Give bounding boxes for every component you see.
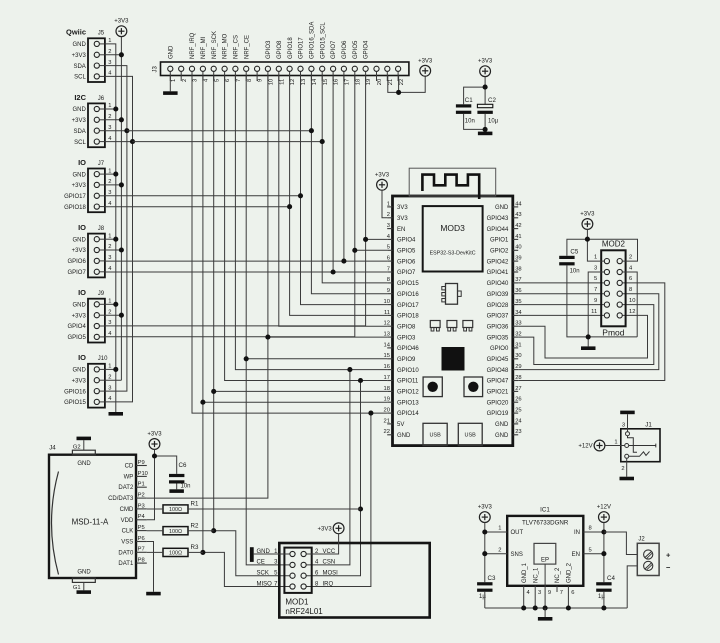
svg-text:3: 3 bbox=[193, 79, 199, 82]
svg-text:12: 12 bbox=[290, 79, 296, 85]
power +3V3 left bus bbox=[114, 19, 129, 37]
svg-text:GPIO7: GPIO7 bbox=[67, 270, 86, 276]
svg-text:2: 2 bbox=[182, 79, 188, 82]
svg-text:3V3: 3V3 bbox=[397, 205, 408, 211]
svg-text:GND: GND bbox=[397, 433, 411, 439]
svg-text:J9: J9 bbox=[98, 291, 105, 297]
wire +12V IN EN bbox=[583, 523, 604, 583]
wire IC1 bottom pins bbox=[524, 564, 569, 608]
svg-text:nRF24L01: nRF24L01 bbox=[285, 607, 323, 616]
svg-text:SDA: SDA bbox=[73, 129, 85, 135]
ground G2 bbox=[77, 437, 92, 441]
svg-text:VDD: VDD bbox=[121, 518, 134, 524]
svg-text:2: 2 bbox=[629, 255, 632, 261]
connector J5 Qwiic bbox=[66, 28, 112, 82]
svg-text:2: 2 bbox=[108, 309, 111, 315]
wire net SDA bbox=[127, 130, 312, 132]
power +3V3 C1C2 bbox=[478, 59, 493, 77]
svg-text:GPIO15_SCL: GPIO15_SCL bbox=[320, 22, 326, 59]
wire net GPIO4 bbox=[105, 76, 366, 326]
svg-text:GPIO6: GPIO6 bbox=[397, 259, 416, 265]
ground VSS bbox=[146, 592, 161, 596]
svg-text:J6: J6 bbox=[98, 96, 105, 102]
svg-text:P1: P1 bbox=[138, 482, 145, 488]
svg-text:1: 1 bbox=[108, 299, 111, 305]
resistor R3 bbox=[147, 544, 203, 557]
svg-text:GPIO37: GPIO37 bbox=[487, 314, 509, 320]
svg-text:SCL: SCL bbox=[74, 75, 86, 81]
ground C1C2 bbox=[478, 132, 493, 136]
svg-text:18: 18 bbox=[355, 79, 361, 85]
svg-text:GPIO9: GPIO9 bbox=[397, 357, 416, 363]
connector J3 22-pin header bbox=[152, 22, 409, 86]
svg-text:J10: J10 bbox=[98, 356, 108, 362]
svg-text:2: 2 bbox=[621, 466, 624, 472]
svg-text:9: 9 bbox=[594, 298, 597, 304]
wire +3V3 bus left bbox=[105, 37, 122, 381]
wire GPIO28 to Pmod9 bbox=[518, 304, 604, 306]
svg-text:GPIO18: GPIO18 bbox=[397, 314, 419, 320]
junction OUT bbox=[482, 529, 487, 534]
ground J3 pin1 bbox=[163, 76, 178, 95]
svg-text:G2: G2 bbox=[73, 444, 81, 450]
svg-text:GPIO35: GPIO35 bbox=[487, 335, 509, 341]
svg-text:GPIO6: GPIO6 bbox=[342, 40, 348, 59]
svg-text:SNS: SNS bbox=[511, 552, 523, 558]
svg-text:3: 3 bbox=[108, 190, 111, 196]
svg-text:+3V3: +3V3 bbox=[72, 183, 87, 189]
svg-text:USB: USB bbox=[465, 433, 477, 439]
wire net SDA to GPIO16 bbox=[311, 76, 387, 294]
junction NRF_MO bbox=[358, 378, 363, 383]
svg-text:−: − bbox=[666, 563, 671, 572]
svg-text:13: 13 bbox=[301, 79, 307, 85]
svg-text:P6: P6 bbox=[138, 536, 145, 542]
svg-text:44: 44 bbox=[515, 201, 522, 207]
svg-text:+3V3: +3V3 bbox=[147, 432, 162, 438]
antenna meander MOD3 bbox=[409, 168, 496, 199]
svg-text:9: 9 bbox=[387, 288, 390, 294]
svg-text:GND_2: GND_2 bbox=[567, 562, 573, 583]
svg-text:10n: 10n bbox=[570, 269, 580, 275]
svg-text:GND: GND bbox=[72, 237, 86, 243]
svg-text:MOD2: MOD2 bbox=[602, 240, 626, 249]
junction SNS bbox=[482, 551, 487, 556]
ground J1 bottom bbox=[620, 477, 635, 481]
junction GPIO3 bbox=[265, 335, 270, 340]
svg-text:19: 19 bbox=[366, 79, 372, 85]
svg-text:NRF_CE: NRF_CE bbox=[244, 35, 250, 59]
wire GPIO40 to Pmod5 bbox=[518, 282, 604, 284]
svg-text:R3: R3 bbox=[191, 544, 199, 551]
svg-text:P2: P2 bbox=[138, 492, 145, 498]
svg-text:GPIO4: GPIO4 bbox=[67, 324, 86, 330]
svg-text:GPIO41: GPIO41 bbox=[487, 270, 509, 276]
svg-text:1: 1 bbox=[498, 526, 501, 532]
svg-text:NRF_SCK: NRF_SCK bbox=[212, 31, 218, 59]
wire net CSN drop bbox=[306, 370, 350, 565]
svg-text:+: + bbox=[666, 551, 671, 560]
svg-text:P5: P5 bbox=[138, 525, 145, 531]
junction GND MOD2 bbox=[586, 334, 591, 339]
svg-text:14: 14 bbox=[384, 342, 391, 348]
svg-text:C4: C4 bbox=[607, 575, 615, 582]
wire net GPIO5 bbox=[105, 76, 355, 337]
wire net NRF_MI row19 bbox=[203, 401, 387, 403]
svg-text:MOSI: MOSI bbox=[323, 571, 339, 577]
svg-text:GPIO40: GPIO40 bbox=[487, 281, 509, 287]
svg-text:NRF_MI: NRF_MI bbox=[201, 36, 207, 59]
wire net GPIO18 bbox=[105, 206, 290, 208]
svg-text:GPIO47: GPIO47 bbox=[487, 379, 509, 385]
ground C6 bbox=[169, 489, 184, 493]
wire net GPIO8 bbox=[279, 76, 387, 326]
svg-text:GND: GND bbox=[168, 45, 174, 59]
svg-text:+3V3: +3V3 bbox=[375, 172, 390, 178]
svg-text:3: 3 bbox=[108, 385, 111, 391]
svg-text:GPIO16: GPIO16 bbox=[64, 389, 86, 395]
wire GPIO36 to Pmod12 bbox=[518, 315, 647, 358]
svg-text:GPIO7: GPIO7 bbox=[331, 40, 337, 59]
svg-text:3: 3 bbox=[108, 125, 111, 131]
junction under J3 pin22 bbox=[396, 90, 401, 95]
wire net GPIO3 row13 bbox=[268, 336, 387, 338]
svg-text:GND: GND bbox=[72, 303, 86, 309]
svg-text:30: 30 bbox=[515, 353, 521, 359]
svg-text:22: 22 bbox=[384, 429, 390, 435]
svg-text:GND: GND bbox=[72, 368, 86, 374]
wire net NRF_IRQ bbox=[192, 76, 387, 413]
svg-text:21: 21 bbox=[388, 79, 394, 85]
svg-text:1: 1 bbox=[387, 201, 390, 207]
svg-text:GPIO16: GPIO16 bbox=[397, 292, 419, 298]
junction IN bbox=[601, 529, 606, 534]
svg-text:GPIO4: GPIO4 bbox=[397, 238, 416, 244]
wire net GPIO7 vert bbox=[332, 76, 334, 272]
USB connector 2 MOD3 bbox=[458, 423, 482, 445]
svg-text:+3V3: +3V3 bbox=[114, 19, 129, 25]
junction NRF_SCK R2 bbox=[211, 528, 216, 533]
svg-text:TLV76733DGNR: TLV76733DGNR bbox=[522, 519, 569, 526]
junction EN bbox=[601, 551, 606, 556]
junction C1C2 top bbox=[483, 85, 488, 90]
svg-text:ESP32-S3-DevKitC: ESP32-S3-DevKitC bbox=[430, 251, 476, 257]
svg-text:P9: P9 bbox=[138, 460, 145, 466]
button 2 MOD3 bbox=[464, 377, 483, 397]
power +12V J1 bbox=[578, 440, 604, 451]
svg-text:MOD3: MOD3 bbox=[440, 223, 465, 233]
junction rail 3 bbox=[533, 605, 538, 610]
junction NRF_CS bbox=[347, 367, 352, 372]
wire net GPIO3 bbox=[147, 76, 268, 498]
power +3V3 IC1 bbox=[478, 505, 493, 523]
svg-text:USB: USB bbox=[429, 433, 441, 439]
svg-text:3V3: 3V3 bbox=[397, 216, 408, 222]
junction VDD bbox=[152, 453, 157, 458]
svg-text:GPIO18: GPIO18 bbox=[64, 205, 86, 211]
svg-text:GPIO13: GPIO13 bbox=[397, 400, 419, 406]
wire net NRF_CS bbox=[235, 76, 387, 370]
connector J4 microSD MSD-11-A bbox=[49, 445, 148, 583]
svg-text:C1: C1 bbox=[465, 97, 473, 104]
svg-text:6: 6 bbox=[387, 256, 390, 262]
svg-text:GPIO8: GPIO8 bbox=[397, 324, 416, 330]
svg-text:20: 20 bbox=[384, 407, 390, 413]
svg-text:21: 21 bbox=[384, 418, 390, 424]
wire net NRF_MO bbox=[225, 76, 388, 381]
junction NRF_SCK row18 bbox=[211, 389, 216, 394]
svg-text:8: 8 bbox=[629, 287, 632, 293]
svg-text:3: 3 bbox=[622, 422, 625, 428]
svg-text:1: 1 bbox=[108, 168, 111, 174]
wire J1 pin3 gnd bbox=[627, 414, 629, 432]
svg-text:Pmod: Pmod bbox=[602, 328, 624, 338]
svg-text:11: 11 bbox=[279, 79, 285, 85]
svg-text:37: 37 bbox=[515, 277, 521, 283]
svg-text:8: 8 bbox=[247, 79, 253, 82]
svg-text:GPIO15: GPIO15 bbox=[397, 281, 419, 287]
svg-text:12: 12 bbox=[629, 309, 635, 315]
svg-text:+3V3: +3V3 bbox=[72, 378, 87, 384]
capacitor C4 bbox=[596, 575, 615, 600]
svg-text:15: 15 bbox=[323, 79, 329, 85]
svg-text:7: 7 bbox=[594, 287, 597, 293]
wire net NRF_SCK bbox=[213, 76, 215, 531]
svg-text:3: 3 bbox=[594, 265, 597, 271]
USB connector 1 MOD3 bbox=[423, 423, 447, 445]
button 1 MOD3 bbox=[423, 377, 442, 397]
svg-text:GPIO14: GPIO14 bbox=[397, 411, 419, 417]
svg-text:9: 9 bbox=[258, 79, 264, 82]
wire net NRF_MI bbox=[202, 76, 204, 552]
junction rail ep bbox=[543, 605, 548, 610]
svg-text:GPIO17: GPIO17 bbox=[299, 37, 305, 59]
junction rail c4 bbox=[601, 605, 606, 610]
svg-text:J4: J4 bbox=[49, 445, 56, 452]
junction rail 4 bbox=[521, 605, 526, 610]
svg-text:CSN: CSN bbox=[323, 560, 336, 566]
svg-text:DAT1: DAT1 bbox=[118, 561, 134, 567]
svg-text:SCL: SCL bbox=[74, 140, 86, 146]
svg-text:GPIO46: GPIO46 bbox=[397, 346, 419, 352]
svg-text:17: 17 bbox=[345, 79, 351, 85]
svg-text:GPIO15: GPIO15 bbox=[64, 400, 86, 406]
svg-text:C3: C3 bbox=[488, 575, 496, 582]
junction rail 6 bbox=[566, 605, 571, 610]
wire GPIO39 to Pmod7 bbox=[518, 293, 604, 295]
svg-text:J1: J1 bbox=[645, 421, 652, 428]
wire C3 gnd bbox=[484, 592, 486, 608]
junction SCL header bbox=[320, 139, 325, 144]
svg-text:24: 24 bbox=[515, 418, 522, 424]
svg-text:+3V3: +3V3 bbox=[418, 58, 433, 64]
resistor R1 bbox=[147, 501, 361, 513]
svg-text:GPIO39: GPIO39 bbox=[487, 292, 509, 298]
junction GPIO5 bbox=[352, 248, 357, 253]
connector MOD2 Pmod bbox=[591, 240, 635, 338]
svg-text:43: 43 bbox=[515, 212, 521, 218]
svg-text:GPIO28: GPIO28 bbox=[487, 303, 509, 309]
wire SCL bus left bbox=[105, 76, 133, 402]
svg-text:GPIO12: GPIO12 bbox=[397, 390, 419, 396]
connector J10 IO bbox=[64, 353, 112, 407]
svg-text:100Ω: 100Ω bbox=[169, 551, 182, 557]
svg-text:22: 22 bbox=[399, 79, 405, 85]
svg-text:GPIO0: GPIO0 bbox=[490, 346, 509, 352]
svg-text:GND: GND bbox=[495, 422, 509, 428]
svg-text:GPIO17: GPIO17 bbox=[64, 194, 86, 200]
svg-text:GND: GND bbox=[72, 172, 86, 178]
svg-text:1: 1 bbox=[171, 79, 177, 82]
module MOD3 ESP32 body bbox=[384, 196, 523, 446]
svg-text:26: 26 bbox=[515, 397, 521, 403]
power +3V3 header bbox=[418, 58, 433, 76]
svg-text:GPIO36: GPIO36 bbox=[487, 324, 509, 330]
wire +3V3 OUT SNS bbox=[485, 523, 507, 583]
wire net GPIO4 row bbox=[366, 238, 388, 240]
svg-text:MOD1: MOD1 bbox=[285, 597, 309, 606]
wire net MOSI drop bbox=[306, 381, 360, 576]
wire SDA bus left bbox=[105, 66, 127, 392]
wire net NRF_SCK row18 bbox=[214, 390, 388, 392]
svg-text:5: 5 bbox=[594, 276, 597, 282]
svg-text:+3V3: +3V3 bbox=[72, 248, 87, 254]
svg-text:+3V3: +3V3 bbox=[580, 212, 595, 218]
junction +3V3 MOD2 bbox=[585, 237, 590, 242]
svg-text:10: 10 bbox=[384, 299, 390, 305]
wire net MISO jog bbox=[203, 552, 290, 586]
wire EP gnd stub bbox=[544, 608, 546, 617]
svg-text:6: 6 bbox=[629, 276, 632, 282]
connector J7 IO bbox=[64, 158, 112, 212]
svg-text:2: 2 bbox=[387, 212, 390, 218]
junction GPIO18 bbox=[287, 204, 292, 209]
wire +3V3 to C1 C2 bbox=[464, 77, 486, 105]
svg-text:20: 20 bbox=[377, 79, 383, 85]
svg-text:14: 14 bbox=[312, 78, 318, 85]
junction NRF_MI R3 bbox=[200, 550, 205, 555]
svg-text:100Ω: 100Ω bbox=[169, 529, 182, 535]
svg-text:3: 3 bbox=[108, 60, 111, 66]
svg-text:1: 1 bbox=[108, 38, 111, 44]
svg-text:3: 3 bbox=[108, 320, 111, 326]
svg-text:GND: GND bbox=[77, 570, 91, 576]
wire net NRF_IRQ drop bbox=[306, 413, 371, 586]
svg-text:+3V3: +3V3 bbox=[72, 313, 87, 319]
wire C4 gnd bbox=[603, 592, 605, 608]
svg-text:42: 42 bbox=[515, 223, 521, 229]
svg-text:10n: 10n bbox=[181, 483, 191, 489]
svg-text:6: 6 bbox=[571, 590, 574, 596]
wire net SCK jog bbox=[214, 531, 290, 576]
svg-text:40: 40 bbox=[515, 245, 521, 251]
svg-text:GPIO2: GPIO2 bbox=[490, 249, 509, 255]
svg-text:GPIO5: GPIO5 bbox=[397, 249, 416, 255]
svg-text:25: 25 bbox=[515, 407, 521, 413]
svg-text:GND: GND bbox=[495, 433, 509, 439]
svg-text:GPIO5: GPIO5 bbox=[67, 335, 86, 341]
power +3V3 microSD bbox=[147, 432, 162, 450]
svg-text:VSS: VSS bbox=[121, 540, 133, 546]
svg-text:+3V3: +3V3 bbox=[72, 118, 87, 124]
svg-text:EN: EN bbox=[397, 227, 405, 233]
svg-text:DAT2: DAT2 bbox=[118, 485, 134, 491]
svg-text:10n: 10n bbox=[465, 119, 475, 125]
wire C1 C2 bottom bbox=[464, 114, 486, 132]
svg-text:C5: C5 bbox=[570, 248, 578, 255]
svg-text:1: 1 bbox=[108, 233, 111, 239]
svg-text:J3: J3 bbox=[152, 66, 158, 73]
wire IC1 gnd rail bbox=[485, 607, 627, 609]
svg-text:Qwiic: Qwiic bbox=[66, 28, 86, 37]
svg-text:7: 7 bbox=[387, 266, 390, 272]
module MOD1 box bbox=[279, 543, 429, 618]
svg-text:1: 1 bbox=[108, 364, 111, 370]
svg-text:MSD-11-A: MSD-11-A bbox=[72, 518, 109, 527]
svg-text:10µ: 10µ bbox=[488, 119, 499, 125]
wire +3V3 VDD C6 bbox=[147, 449, 177, 519]
svg-text:GND: GND bbox=[77, 461, 91, 467]
capacitor C1 bbox=[456, 97, 475, 124]
svg-text:GPIO3: GPIO3 bbox=[397, 335, 416, 341]
svg-text:GPIO19: GPIO19 bbox=[487, 411, 509, 417]
svg-text:CD: CD bbox=[125, 464, 134, 470]
wire GPIO35 to Pmod10 bbox=[518, 305, 654, 365]
svg-text:GPIO42: GPIO42 bbox=[487, 259, 509, 265]
svg-text:GPIO8: GPIO8 bbox=[277, 40, 283, 59]
wire GPIO37 to Pmod11 bbox=[518, 314, 604, 316]
svg-text:5: 5 bbox=[214, 79, 220, 82]
connector J9 IO bbox=[67, 288, 112, 342]
svg-text:9: 9 bbox=[548, 590, 551, 596]
svg-text:IN: IN bbox=[574, 530, 580, 536]
svg-text:IO: IO bbox=[78, 288, 86, 297]
wire GND MOD2 net bbox=[567, 265, 637, 346]
svg-text:GPIO3: GPIO3 bbox=[266, 40, 272, 59]
svg-text:GPIO16_SDA: GPIO16_SDA bbox=[310, 22, 316, 59]
svg-text:GPIO48: GPIO48 bbox=[487, 368, 509, 374]
ground MOD1 bbox=[250, 547, 290, 562]
svg-text:CD/DAT3: CD/DAT3 bbox=[108, 496, 134, 502]
wire J2 minus to gnd bbox=[627, 566, 637, 608]
wire net GPIO5 row bbox=[355, 249, 387, 251]
svg-text:3: 3 bbox=[538, 590, 541, 596]
svg-text:NRF_MO: NRF_MO bbox=[223, 33, 229, 59]
connector J8 IO bbox=[67, 223, 112, 277]
svg-text:IO: IO bbox=[78, 158, 86, 167]
svg-text:DAT0: DAT0 bbox=[118, 550, 134, 556]
svg-text:+3V3: +3V3 bbox=[318, 527, 333, 533]
svg-text:39: 39 bbox=[515, 256, 521, 262]
svg-text:GPIO21: GPIO21 bbox=[487, 390, 509, 396]
wire J1 pin2 gnd bbox=[626, 458, 628, 476]
wire +12V to J2 plus bbox=[604, 532, 637, 555]
svg-text:GPIO45: GPIO45 bbox=[487, 357, 509, 363]
svg-text:CMD: CMD bbox=[120, 507, 134, 513]
junction GPIO17 bbox=[298, 193, 303, 198]
svg-text:10: 10 bbox=[269, 79, 275, 85]
svg-text:I2C: I2C bbox=[74, 93, 86, 102]
svg-text:GPIO1: GPIO1 bbox=[490, 238, 509, 244]
svg-text:IC1: IC1 bbox=[540, 507, 550, 514]
wire net SCL bbox=[133, 141, 323, 143]
junction NRF_MI row19 bbox=[200, 400, 205, 405]
junction GPIO7 bbox=[331, 269, 336, 274]
svg-text:7: 7 bbox=[236, 79, 242, 82]
wire G2 bbox=[73, 440, 84, 450]
svg-text:5: 5 bbox=[387, 245, 390, 251]
wire net SCL to GPIO15 bbox=[322, 76, 387, 283]
